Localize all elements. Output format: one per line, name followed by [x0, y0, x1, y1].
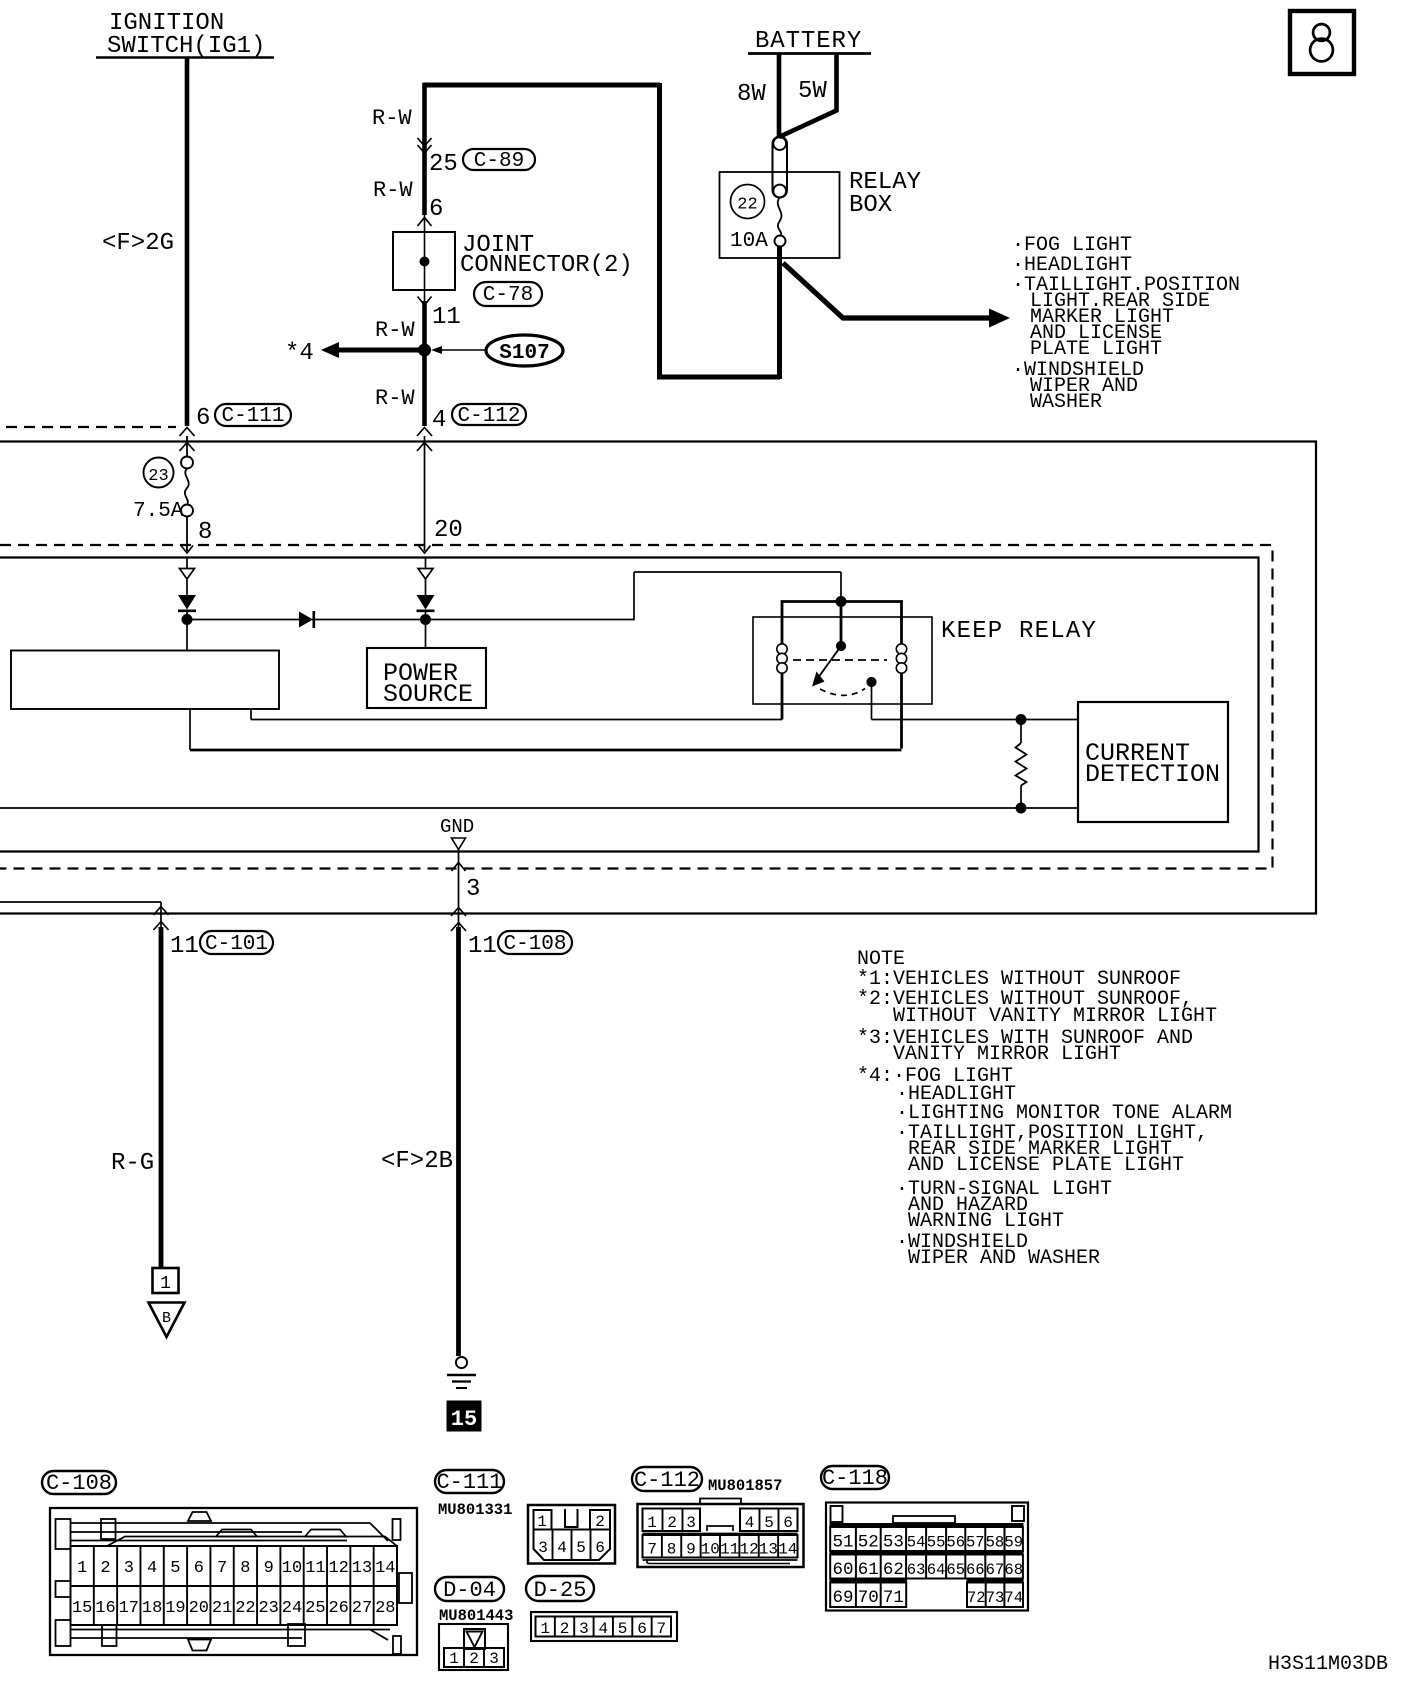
battery 8W lead (thick) [777, 53, 782, 138]
page number 8 box [1290, 11, 1354, 74]
svg-text:C-118: C-118 [822, 1466, 888, 1491]
wire fuse22 down (thick) [777, 246, 782, 379]
svg-text:11: 11 [432, 304, 461, 331]
svg-text:2: 2 [100, 1559, 110, 1578]
svg-text:WITHOUT VANITY MIRROR LIGHT: WITHOUT VANITY MIRROR LIGHT [893, 1005, 1217, 1028]
power source box [367, 648, 486, 708]
svg-text:13: 13 [352, 1559, 372, 1578]
svg-text:BATTERY: BATTERY [755, 28, 862, 55]
svg-text:8: 8 [240, 1559, 250, 1578]
svg-text:5: 5 [618, 1620, 628, 1638]
joint connector (2) box C-78 [393, 232, 455, 290]
svg-text:R-W: R-W [375, 386, 415, 411]
svg-text:53: 53 [883, 1533, 904, 1553]
svg-text:4: 4 [745, 1514, 755, 1532]
connector D-04 housing drawing with pins 1-3 [439, 1624, 508, 1670]
svg-text:WIPER AND WASHER: WIPER AND WASHER [908, 1247, 1100, 1270]
keep relay junction dot (top) [836, 597, 846, 607]
svg-text:24: 24 [282, 1599, 302, 1618]
inner solid unit box [0, 558, 1259, 852]
svg-text:18: 18 [142, 1599, 162, 1618]
keep relay body outline [753, 617, 932, 704]
svg-text:SWITCH(IG1): SWITCH(IG1) [107, 33, 265, 60]
svg-text:56: 56 [946, 1534, 965, 1552]
svg-text:22: 22 [235, 1599, 255, 1618]
series diode on internal bus [299, 612, 313, 628]
svg-text:64: 64 [927, 1561, 946, 1579]
thick arrow from fuse 22 to lighting loads [783, 263, 992, 318]
svg-text:67: 67 [986, 1561, 1005, 1579]
svg-text:23: 23 [148, 467, 168, 486]
internal logic block (unlabeled) [11, 651, 279, 710]
svg-text:12: 12 [739, 1541, 758, 1559]
svg-text:3: 3 [579, 1620, 589, 1638]
svg-text:51: 51 [832, 1533, 853, 1553]
svg-text:58: 58 [986, 1534, 1005, 1552]
svg-text:5: 5 [576, 1539, 586, 1557]
svg-text:4: 4 [557, 1539, 567, 1557]
fuse 22 callout circle [731, 185, 765, 219]
battery 5W lead (thick) [834, 53, 839, 112]
joint connector entry chevron [418, 218, 432, 227]
svg-text:71: 71 [883, 1588, 904, 1608]
svg-text:VANITY MIRROR LIGHT: VANITY MIRROR LIGHT [893, 1043, 1121, 1066]
svg-text:20: 20 [434, 517, 463, 544]
svg-text:72: 72 [967, 1589, 986, 1607]
wire from diode junction down (pin 8 branch) [186, 620, 188, 651]
svg-text:GND: GND [440, 816, 474, 838]
S107 splice callout ellipse [486, 335, 563, 366]
svg-text:11: 11 [305, 1559, 325, 1578]
keep relay left coil [777, 644, 787, 654]
svg-text:17: 17 [119, 1599, 139, 1618]
arrowhead entering dashed unit at pin 8 [181, 546, 193, 554]
svg-text:70: 70 [858, 1588, 879, 1608]
fuse 22 bottom terminal circle [775, 236, 786, 247]
svg-text:R-G: R-G [111, 1150, 154, 1177]
dashed connector boundary segment (left) [6, 426, 176, 428]
crossing chevrons at 4 C-112 [417, 428, 432, 437]
fuse 23 symbol [181, 457, 193, 469]
svg-text:15: 15 [451, 1407, 477, 1432]
svg-text:4: 4 [598, 1620, 608, 1638]
wire from diode junction down (pin 20 branch) [425, 620, 427, 649]
wire R-G to body ground (thick) [159, 927, 164, 1269]
wire fuse23 to ECU pin 8 [186, 517, 188, 552]
svg-text:1: 1 [77, 1559, 87, 1578]
joint connector junction dot [420, 257, 429, 266]
internal ground triangle [452, 838, 466, 850]
svg-text:R-W: R-W [375, 318, 415, 343]
junction dot resistor top [1016, 715, 1026, 725]
wire (F)2B to ground (thick) [456, 927, 461, 1356]
svg-text:6: 6 [429, 196, 443, 223]
svg-text:61: 61 [858, 1560, 879, 1580]
svg-text:7: 7 [217, 1559, 227, 1578]
connector pill D-25 [526, 1576, 594, 1601]
wire riser to keep relay [633, 572, 635, 620]
svg-text:8: 8 [667, 1541, 677, 1559]
svg-text:9: 9 [686, 1541, 696, 1559]
svg-text:2: 2 [469, 1650, 479, 1668]
svg-text:C-108: C-108 [46, 1471, 112, 1496]
svg-text:25: 25 [305, 1599, 325, 1618]
arrowhead entering dashed unit at pin 20 [419, 546, 431, 554]
chevrons GND crossing outer box [451, 908, 466, 917]
svg-text:7: 7 [656, 1620, 666, 1638]
svg-text:C-108: C-108 [503, 933, 566, 956]
svg-text:68: 68 [1004, 1561, 1023, 1579]
connector C-89 crossing double chevron [418, 138, 432, 146]
connector pill C-89 [463, 149, 535, 170]
connector C-108 housing drawing with pins 1-28 [50, 1508, 417, 1655]
S107 callout arrow [440, 349, 486, 351]
chevrons C-101 crossing outer box [154, 907, 169, 916]
terminal box 1 [153, 1268, 179, 1293]
keep relay contact lead down [871, 682, 873, 720]
fuse 23 callout circle [144, 458, 174, 488]
connector pill C-111 (top) [215, 404, 291, 426]
keep relay coil frame (thick U) [782, 602, 902, 749]
internal wire to C-101 pin 11 [0, 901, 161, 903]
svg-text:13: 13 [759, 1541, 778, 1559]
svg-text:<F>2G: <F>2G [102, 230, 174, 257]
svg-text:3: 3 [686, 1514, 696, 1532]
svg-text:1: 1 [449, 1650, 459, 1668]
connector C-118 housing drawing with pins 51-74 [826, 1503, 1028, 1611]
svg-text:5: 5 [764, 1514, 774, 1532]
svg-text:2: 2 [560, 1620, 570, 1638]
joint connector internal wire [424, 215, 426, 302]
svg-text:26: 26 [328, 1599, 348, 1618]
svg-text:52: 52 [858, 1533, 879, 1553]
keep relay throw dashed arc [820, 689, 865, 696]
svg-text:*4: *4 [285, 340, 314, 367]
keep relay switch pivot dot [836, 641, 845, 650]
fuse 23 wire upper lead [186, 436, 188, 457]
splice junction dot S107 [419, 344, 431, 356]
svg-text:KEEP RELAY: KEEP RELAY [941, 618, 1097, 645]
svg-text:4: 4 [432, 407, 446, 434]
connector pill C-118 (bottom) [821, 1466, 889, 1489]
connector crossing chevrons at 6 C-111 [180, 428, 195, 437]
svg-text:MU801857: MU801857 [708, 1477, 782, 1495]
svg-text:27: 27 [352, 1599, 372, 1618]
svg-text:C-112: C-112 [634, 1468, 700, 1493]
junction dot on internal bus (pin 20 branch) [421, 615, 431, 625]
svg-text:20: 20 [189, 1599, 209, 1618]
svg-text:6: 6 [637, 1620, 647, 1638]
svg-text:11: 11 [170, 933, 199, 960]
svg-text:S107: S107 [499, 342, 549, 365]
connector pill C-108 (bottom) [42, 1471, 116, 1494]
svg-text:10: 10 [701, 1541, 720, 1559]
svg-text:C-111: C-111 [221, 405, 284, 428]
svg-text:5: 5 [170, 1559, 180, 1578]
svg-text:11: 11 [720, 1541, 739, 1559]
svg-text:D-25: D-25 [534, 1578, 587, 1603]
svg-text:<F>2B: <F>2B [381, 1148, 453, 1175]
svg-text:SOURCE: SOURCE [383, 680, 473, 709]
svg-text:6: 6 [595, 1539, 605, 1557]
wire R-W vertical upper (thick) [422, 83, 427, 215]
svg-text:10A: 10A [730, 230, 768, 253]
bus wire A right (relay contact to current detection) [872, 719, 1079, 721]
connector pill C-112 (bottom) [632, 1467, 702, 1491]
svg-text:14: 14 [778, 1541, 797, 1559]
connector C-112 housing drawing with pins 1-14 [638, 1504, 804, 1567]
svg-text:R-W: R-W [373, 178, 413, 203]
svg-text:1: 1 [160, 1274, 171, 1294]
outer solid unit box [0, 442, 1316, 914]
wire GND to pin 3 [458, 850, 460, 929]
svg-text:21: 21 [212, 1599, 232, 1618]
svg-text:2: 2 [595, 1513, 605, 1531]
svg-text:59: 59 [1004, 1534, 1023, 1552]
svg-text:8W: 8W [737, 81, 766, 108]
svg-text:7: 7 [647, 1541, 657, 1559]
wire R-W below joint connector (thick) [422, 301, 427, 426]
ground point 15 marker [447, 1401, 481, 1431]
ground reference triangle B [149, 1303, 185, 1338]
svg-text:WARNING LIGHT: WARNING LIGHT [908, 1210, 1064, 1233]
connector pill C-112 (top) [452, 404, 526, 425]
svg-text:CONNECTOR(2): CONNECTOR(2) [460, 252, 633, 279]
svg-text:C-89: C-89 [474, 150, 524, 173]
svg-text:C-111: C-111 [436, 1470, 502, 1495]
svg-text:DETECTION: DETECTION [1085, 760, 1220, 789]
svg-text:1: 1 [537, 1513, 547, 1531]
svg-text:C-101: C-101 [205, 933, 268, 956]
svg-text:MU801443: MU801443 [439, 1607, 513, 1625]
fuse 22 element wavy line [778, 198, 782, 237]
svg-text:28: 28 [375, 1599, 395, 1618]
svg-text:PLATE LIGHT: PLATE LIGHT [1030, 338, 1162, 361]
internal bus wire with diode [187, 619, 634, 621]
svg-text:3: 3 [124, 1559, 134, 1578]
junction dot on internal bus (pin 8 branch) [182, 615, 192, 625]
svg-text:6: 6 [194, 1559, 204, 1578]
bus wire A left (logic block to relay coil) [250, 709, 252, 720]
svg-text:3: 3 [466, 876, 480, 903]
svg-text:2: 2 [667, 1514, 677, 1532]
bus wire B (logic block to relay, thick) [189, 709, 191, 750]
svg-text:25: 25 [429, 151, 458, 178]
svg-text:54: 54 [907, 1534, 926, 1552]
svg-text:63: 63 [907, 1561, 926, 1579]
svg-text:C-112: C-112 [457, 405, 520, 428]
wire battery loop right vertical (thick) [657, 83, 662, 377]
svg-text:66: 66 [966, 1561, 985, 1579]
zener diode (pin 8 branch) [186, 558, 188, 569]
chevron GND crossing inner box [452, 863, 466, 872]
svg-text:62: 62 [883, 1560, 904, 1580]
svg-text:69: 69 [832, 1588, 853, 1608]
connector pill C-111 (bottom) [435, 1470, 504, 1493]
svg-text:D-04: D-04 [443, 1578, 496, 1603]
connector pill C-108 (mid) [498, 931, 572, 954]
svg-text:1: 1 [540, 1620, 550, 1638]
wire ignition IG1 feed (thick vertical) [185, 57, 190, 426]
keep relay switch common lead [840, 602, 843, 647]
svg-text:5W: 5W [798, 78, 827, 105]
sense resistor [1020, 720, 1022, 744]
wire battery loop lower horizontal (thick) [657, 375, 780, 380]
connector pill C-101 [200, 931, 273, 954]
connector pill D-04 [435, 1577, 504, 1601]
wire R-W inside unit to pin 20 [424, 436, 426, 551]
svg-text:7.5A: 7.5A [133, 500, 184, 523]
svg-text:6: 6 [783, 1514, 793, 1532]
svg-text:11: 11 [468, 933, 497, 960]
keep relay coil axis dashed line [793, 659, 887, 661]
arrow to *4 circuits (thick) [338, 348, 425, 353]
svg-text:22: 22 [737, 196, 757, 215]
svg-text:8: 8 [198, 519, 212, 546]
fusible link capsule at battery [773, 137, 788, 198]
svg-text:R-W: R-W [372, 106, 412, 131]
joint connector exit chevron [418, 297, 432, 306]
svg-text:9: 9 [264, 1559, 274, 1578]
svg-text:B: B [162, 1310, 171, 1327]
svg-text:6: 6 [196, 405, 210, 432]
svg-text:23: 23 [258, 1599, 278, 1618]
zener diode (pin 20 branch) [425, 558, 427, 569]
svg-text:19: 19 [165, 1599, 185, 1618]
junction dot resistor bottom [1016, 803, 1026, 813]
svg-text:65: 65 [946, 1561, 965, 1579]
svg-text:1: 1 [647, 1514, 657, 1532]
chassis ground symbol [456, 1357, 467, 1368]
svg-text:MU801331: MU801331 [438, 1501, 512, 1519]
svg-text:3: 3 [489, 1650, 499, 1668]
svg-text:WASHER: WASHER [1030, 391, 1102, 414]
svg-text:H3S11M03DB: H3S11M03DB [1268, 1653, 1388, 1676]
svg-text:57: 57 [966, 1534, 985, 1552]
svg-text:AND LICENSE PLATE LIGHT: AND LICENSE PLATE LIGHT [908, 1154, 1184, 1177]
keep relay right coil [896, 644, 906, 654]
svg-text:55: 55 [927, 1534, 946, 1552]
connector C-111 housing drawing with pins 1-6 [528, 1505, 615, 1564]
svg-text:60: 60 [832, 1560, 853, 1580]
connector pill C-78 [474, 282, 542, 306]
hollow triangle terminal (pin 20 branch) [418, 569, 433, 580]
svg-text:16: 16 [95, 1599, 115, 1618]
hollow triangle terminal (pin 8 branch) [180, 569, 195, 580]
keep relay switch arm [819, 646, 841, 677]
dashed unit box [0, 545, 1273, 869]
svg-text:73: 73 [986, 1589, 1005, 1607]
connector D-25 housing drawing with pins 1-7 [531, 1612, 677, 1641]
relay box outline [720, 172, 840, 258]
bus wire C (ground return) [0, 807, 1078, 809]
svg-text:14: 14 [375, 1559, 395, 1578]
svg-text:12: 12 [328, 1559, 348, 1578]
svg-text:BOX: BOX [849, 192, 892, 219]
current detection box [1078, 702, 1228, 822]
keep relay contact dot [867, 677, 876, 686]
svg-text:3: 3 [538, 1539, 548, 1557]
svg-text:10: 10 [282, 1559, 302, 1578]
svg-text:4: 4 [147, 1559, 157, 1578]
svg-text:74: 74 [1004, 1589, 1023, 1607]
wire battery loop top horizontal (thick) [423, 83, 661, 88]
svg-text:15: 15 [72, 1599, 92, 1618]
svg-text:C-78: C-78 [483, 284, 533, 307]
